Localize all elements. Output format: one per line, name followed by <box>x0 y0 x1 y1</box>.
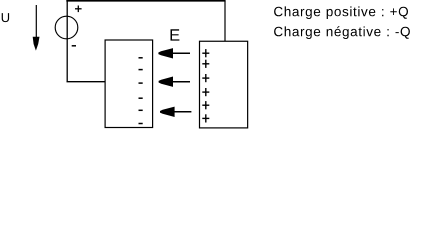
plate right (positive electrode) <box>200 41 248 128</box>
plus polarity label <box>75 6 82 13</box>
positive charges on right plate <box>202 49 209 122</box>
minus polarity label <box>72 45 76 47</box>
label U <box>2 13 9 22</box>
field arrow 2 <box>159 77 190 87</box>
plate left (negative electrode) <box>105 40 153 128</box>
label E (electric field) <box>171 29 180 40</box>
caption: Charge positive : +Q <box>274 6 408 19</box>
negative charges on left plate <box>139 58 143 124</box>
caption: Charge négative : -Q <box>274 26 410 39</box>
field arrow 1 <box>158 48 190 58</box>
wire bottom horizontal <box>67 81 106 83</box>
wire source vertical <box>66 1 68 82</box>
voltage source <box>55 16 78 39</box>
field arrow 3 <box>160 107 191 117</box>
wire right vertical to plate <box>224 1 226 42</box>
arrow U (voltage direction, downward) <box>33 5 40 51</box>
wire top horizontal <box>66 0 225 2</box>
